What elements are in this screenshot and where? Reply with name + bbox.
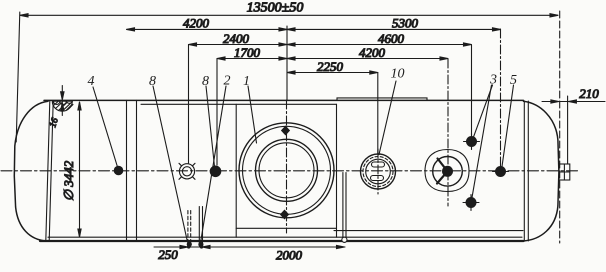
extension line center reference [286, 26, 288, 100]
svg-text:4600: 4600 [378, 31, 405, 46]
lower right shell line [334, 230, 523, 232]
drain pipe right [342, 173, 347, 243]
svg-text:2250: 2250 [317, 59, 344, 74]
bolt 3 lower [463, 195, 479, 211]
svg-text:250: 250 [158, 247, 178, 262]
dimension diameter 3442 [61, 102, 81, 237]
manhole 10 flange [361, 149, 396, 194]
leader 2 [201, 86, 226, 241]
extension line fitting face [567, 96, 569, 164]
dimension 5300 [287, 16, 501, 32]
dimension 4200 left [127, 16, 288, 32]
flange 8 (small bolted flange) [179, 163, 195, 179]
safety valve [425, 150, 469, 192]
manhole clamp top [281, 126, 290, 136]
extension line 1700 to boss [216, 59, 218, 166]
end fitting on right head [559, 164, 570, 180]
svg-text:5300: 5300 [392, 16, 419, 31]
extension line 4600 to bolt 3 [471, 45, 473, 136]
svg-text:10: 10 [391, 67, 405, 82]
svg-text:1: 1 [243, 74, 250, 89]
svg-text:2400: 2400 [223, 31, 250, 46]
weld thickness arrows 16 [61, 86, 64, 116]
shell seam A [126, 100, 128, 241]
dimension 13500±50 [20, 1, 558, 17]
leader 4 [93, 87, 118, 167]
right head weld seam [523, 101, 525, 241]
manhole main inner ring [256, 139, 318, 201]
extension line 5300 to bolt 5 (centerline) [500, 29, 502, 166]
weld detail semicircle [52, 101, 73, 111]
leader 3 upper [474, 85, 493, 137]
callout labels [88, 67, 518, 90]
dimension 4200 right [287, 45, 448, 60]
svg-text:5: 5 [510, 73, 517, 88]
tank bottom outer line [40, 240, 524, 242]
leader 1 [248, 86, 257, 143]
svg-text:∅ 3442: ∅ 3442 [61, 160, 76, 201]
bolt 3 upper [464, 134, 480, 150]
boss 2 [210, 166, 222, 178]
pad top edge [141, 103, 337, 105]
pad bottom edge [236, 227, 336, 229]
svg-text:8: 8 [202, 74, 209, 89]
drain pipe solid [198, 207, 203, 248]
svg-text:2: 2 [224, 74, 231, 89]
dimension 210 [542, 86, 605, 103]
left head [14, 101, 48, 241]
extension line left (tank end) [16, 12, 20, 142]
pad right edge [336, 104, 338, 237]
svg-text:4200: 4200 [359, 45, 386, 60]
dimension 2250 [287, 59, 378, 74]
svg-text:13500±50: 13500±50 [247, 1, 304, 16]
svg-text:1700: 1700 [234, 45, 261, 60]
bolt 4 [114, 166, 124, 176]
leader 8 left [153, 86, 188, 242]
leader 5 [502, 85, 514, 167]
svg-text:210: 210 [579, 86, 599, 101]
leader 8 right [206, 86, 215, 167]
horizontal centerline [1, 170, 578, 172]
extension line 2400 to flange [188, 45, 190, 164]
manhole main outer ring [239, 123, 334, 218]
shell seam B [136, 100, 138, 241]
dimension 250 and 2000 baseline [154, 245, 345, 263]
dimension 1700 [217, 45, 287, 60]
left head weld seam [46, 101, 50, 241]
dimension 4600 [287, 31, 472, 46]
svg-text:4: 4 [88, 74, 95, 89]
extension line 4200R to valve (centerline) [447, 59, 449, 206]
extension line right (tank end) [559, 11, 561, 243]
right head [524, 101, 559, 241]
dimension 2400 [189, 31, 288, 46]
svg-text:2000: 2000 [276, 248, 303, 263]
top platform [337, 98, 427, 101]
centerline vertical through manhole [286, 100, 288, 233]
tank top shell line [44, 99, 524, 101]
manhole clamp bottom [280, 210, 289, 220]
tank bottom inner line [48, 236, 522, 238]
extension line 2250 to manhole 10 [377, 73, 379, 154]
svg-text:4200: 4200 [183, 16, 210, 31]
drain pipe hidden (dashed) [187, 211, 192, 247]
svg-text:8: 8 [149, 74, 156, 89]
leader 10 [379, 81, 396, 155]
svg-text:3: 3 [489, 73, 497, 88]
leader 3 lower [472, 85, 492, 198]
bolt 5 [493, 166, 509, 177]
pad left edge [235, 104, 237, 237]
